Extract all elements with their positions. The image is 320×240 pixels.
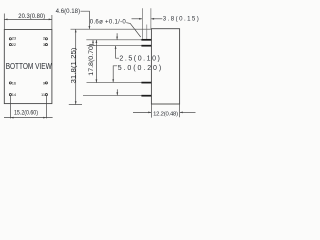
svg-text:0.6ø +0.1/-0: 0.6ø +0.1/-0 <box>90 19 127 26</box>
top dimension 20.3(0.80) <box>4 14 52 30</box>
bottom dimension 15.2(0.60) <box>4 96 53 119</box>
pin extension lines <box>83 40 143 96</box>
5.0 dimension <box>113 66 117 82</box>
svg-text:3.8(0.15): 3.8(0.15) <box>163 15 199 22</box>
2.5 dimension <box>116 33 118 39</box>
12.2 dimension <box>133 104 196 117</box>
3.8 dimension <box>141 8 143 39</box>
svg-text:15.2(0.60): 15.2(0.60) <box>14 109 38 116</box>
svg-text:2.5(0.10): 2.5(0.10) <box>119 55 159 62</box>
side view body <box>151 29 179 104</box>
svg-text:14: 14 <box>12 92 17 97</box>
svg-text:20.3(0.80): 20.3(0.80) <box>18 13 45 20</box>
svg-text:17.8(0.70): 17.8(0.70) <box>88 44 95 76</box>
svg-text:22: 22 <box>12 42 17 47</box>
svg-text:BOTTOM VIEW: BOTTOM VIEW <box>6 62 52 71</box>
svg-text:16: 16 <box>12 80 17 85</box>
pin circles <box>9 38 47 96</box>
svg-text:12.2(0.48): 12.2(0.48) <box>153 111 178 117</box>
31.8 dimension <box>75 29 77 104</box>
pins (side view) <box>141 39 151 97</box>
bottom view box <box>4 30 52 104</box>
svg-text:5.0(0.20): 5.0(0.20) <box>118 65 162 72</box>
pin number labels <box>12 35 46 97</box>
17.8 dimension <box>95 40 97 83</box>
svg-text:23: 23 <box>12 35 17 40</box>
svg-text:31.8(1.25): 31.8(1.25) <box>71 48 78 84</box>
svg-text:4.6(0.18): 4.6(0.18) <box>56 8 81 15</box>
top extension line from body <box>71 28 152 30</box>
